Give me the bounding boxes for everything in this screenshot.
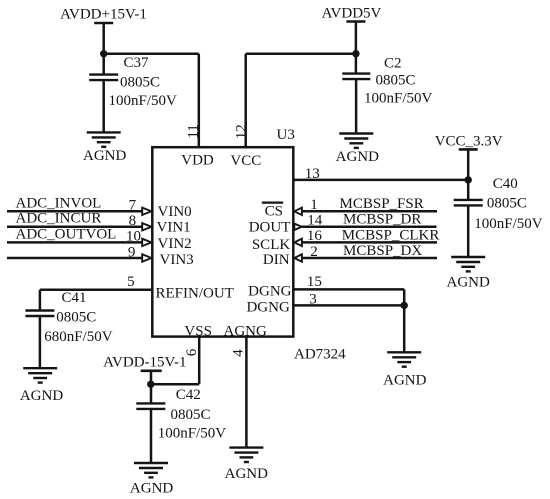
svg-text:0805C: 0805C (487, 196, 527, 212)
svg-text:C42: C42 (176, 387, 201, 403)
svg-text:14: 14 (307, 213, 323, 229)
svg-text:ADC_OUTVOL: ADC_OUTVOL (16, 227, 117, 243)
svg-text:0805C: 0805C (171, 407, 211, 423)
svg-text:VCC_3.3V: VCC_3.3V (435, 133, 503, 149)
svg-text:DGNG: DGNG (246, 299, 289, 315)
svg-text:9: 9 (128, 244, 136, 260)
svg-text:1: 1 (310, 197, 318, 213)
svg-text:5: 5 (127, 274, 135, 290)
svg-text:AVDD+15V-1: AVDD+15V-1 (60, 7, 147, 23)
svg-text:680nF/50V: 680nF/50V (44, 329, 113, 345)
svg-text:VIN0: VIN0 (158, 204, 192, 220)
svg-text:MCBSP_CLKR: MCBSP_CLKR (342, 227, 440, 243)
svg-text:0805C: 0805C (376, 73, 416, 89)
svg-text:DOUT: DOUT (249, 220, 291, 236)
svg-text:0805C: 0805C (120, 75, 160, 91)
svg-text:VDD: VDD (181, 152, 214, 168)
svg-text:16: 16 (307, 228, 323, 244)
svg-text:12: 12 (234, 124, 250, 139)
svg-text:0805C: 0805C (56, 310, 96, 326)
svg-text:CS: CS (265, 204, 283, 220)
svg-text:AGND: AGND (447, 274, 490, 290)
svg-text:AGNG: AGNG (224, 324, 267, 340)
svg-text:VCC: VCC (230, 153, 261, 169)
svg-text:AGND: AGND (383, 372, 426, 388)
svg-text:10: 10 (126, 229, 141, 245)
svg-text:AGND: AGND (83, 148, 126, 164)
svg-text:AGND: AGND (225, 466, 268, 482)
svg-text:100nF/50V: 100nF/50V (109, 93, 178, 109)
svg-text:MCBSP_DR: MCBSP_DR (343, 212, 421, 228)
svg-text:7: 7 (129, 198, 137, 214)
svg-text:13: 13 (305, 166, 320, 182)
svg-text:8: 8 (129, 213, 137, 229)
svg-text:VSS: VSS (184, 323, 212, 339)
svg-text:VIN1: VIN1 (157, 220, 191, 236)
svg-text:U3: U3 (277, 127, 295, 143)
svg-text:MCBSP_DX: MCBSP_DX (343, 243, 422, 259)
svg-text:VIN2: VIN2 (158, 236, 192, 252)
svg-text:11: 11 (186, 124, 202, 138)
svg-text:AD7324: AD7324 (294, 347, 346, 363)
svg-text:MCBSP_FSR: MCBSP_FSR (340, 196, 424, 212)
svg-text:4: 4 (231, 349, 247, 357)
svg-text:AGND: AGND (336, 149, 379, 165)
svg-text:2: 2 (310, 244, 318, 260)
svg-text:100nF/50V: 100nF/50V (474, 216, 543, 232)
svg-text:AVDD-15V-1: AVDD-15V-1 (103, 354, 186, 370)
svg-text:6: 6 (184, 348, 200, 356)
svg-text:C2: C2 (384, 56, 402, 72)
svg-text:REFIN/OUT: REFIN/OUT (156, 286, 234, 302)
svg-text:AGND: AGND (130, 481, 173, 497)
svg-text:C41: C41 (62, 290, 87, 306)
svg-text:C40: C40 (493, 176, 518, 192)
svg-text:ADC_INCUR: ADC_INCUR (16, 211, 102, 227)
svg-text:DGNG: DGNG (248, 283, 291, 299)
svg-text:SCLK: SCLK (252, 237, 291, 253)
svg-text:AVDD5V: AVDD5V (322, 6, 382, 22)
svg-text:100nF/50V: 100nF/50V (364, 90, 433, 106)
svg-text:3: 3 (309, 292, 317, 308)
svg-text:15: 15 (307, 274, 322, 290)
svg-text:ADC_INVOL: ADC_INVOL (16, 195, 102, 211)
svg-text:DIN: DIN (263, 252, 290, 268)
svg-text:100nF/50V: 100nF/50V (158, 426, 227, 442)
svg-text:C37: C37 (124, 55, 150, 71)
svg-text:AGND: AGND (20, 388, 63, 404)
svg-text:VIN3: VIN3 (160, 252, 194, 268)
